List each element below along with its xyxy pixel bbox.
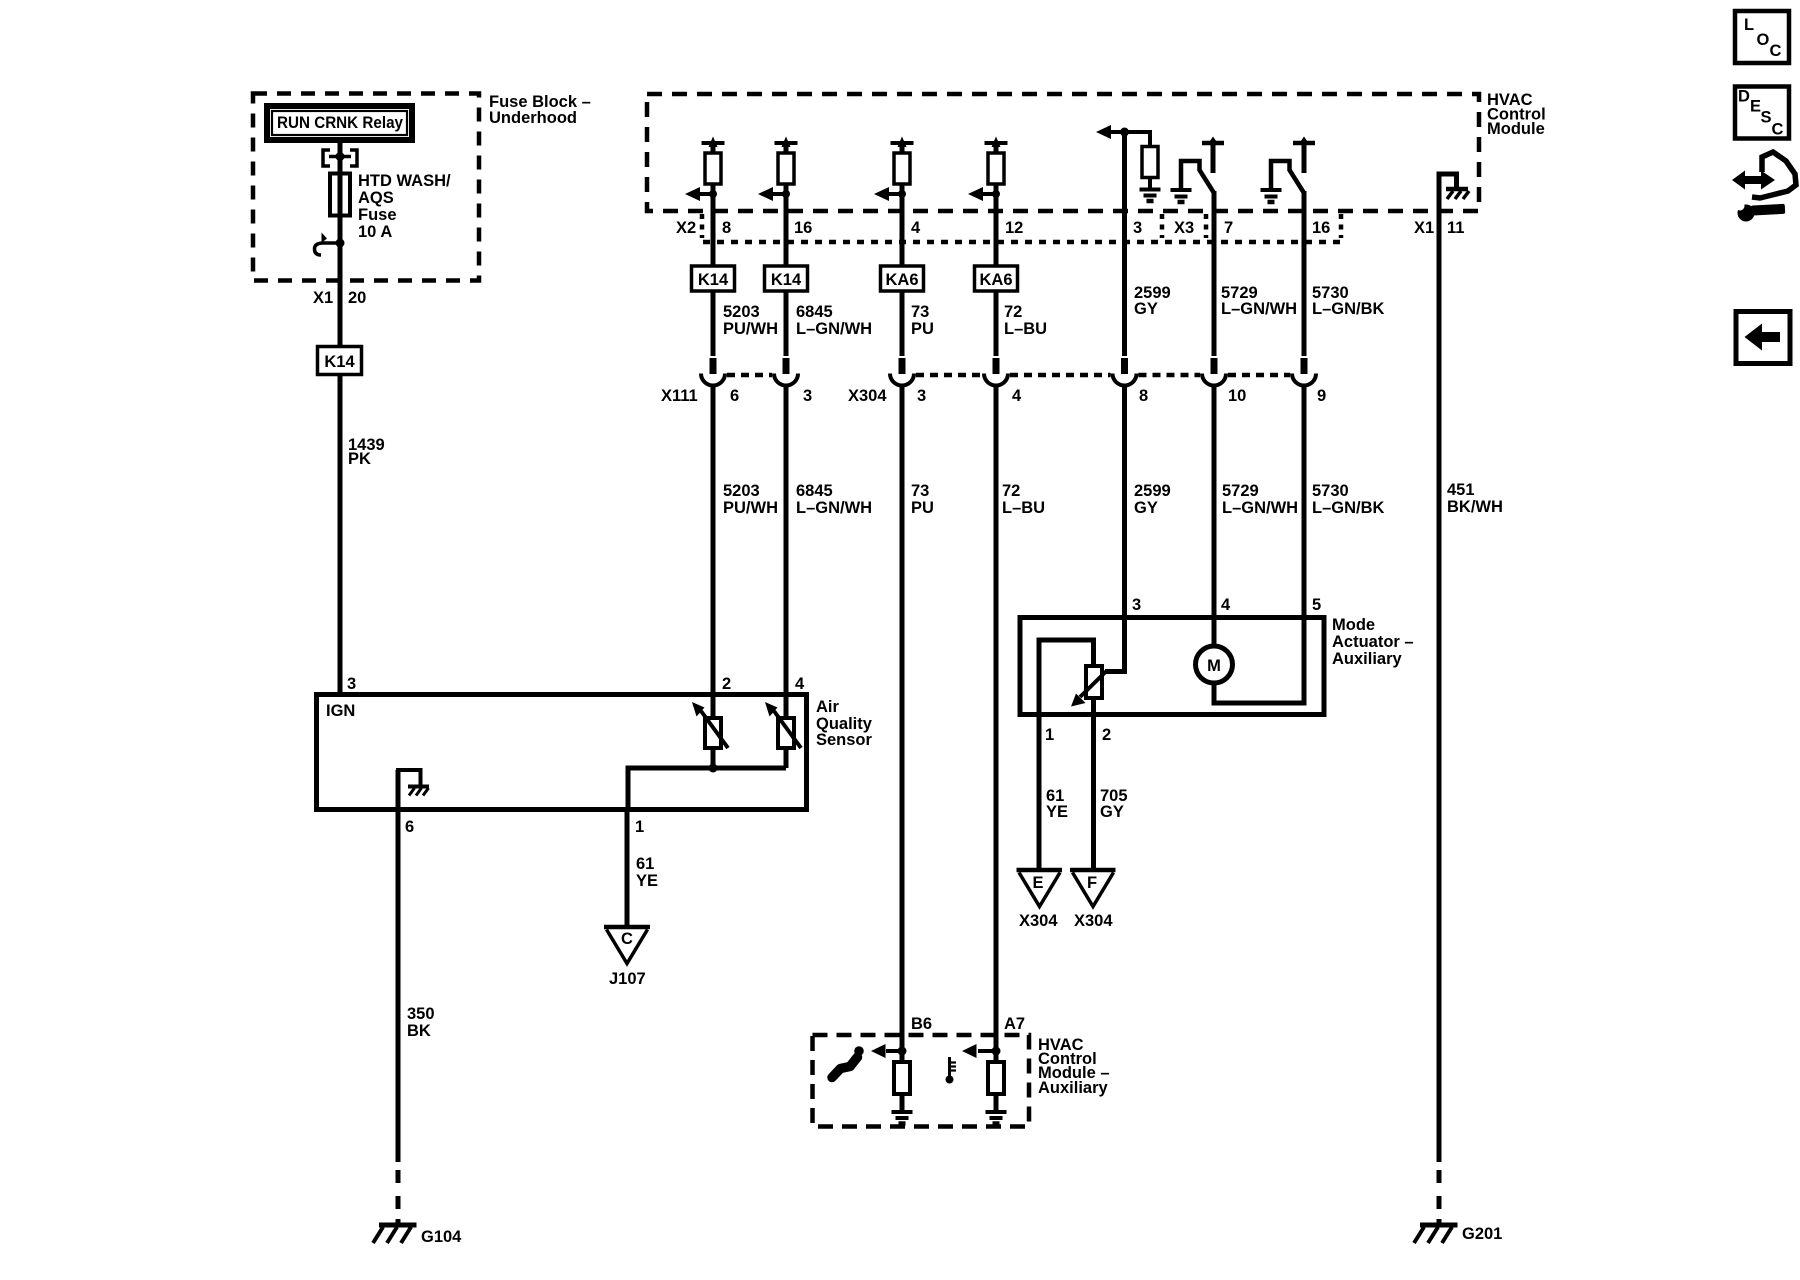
svg-text:16: 16 <box>1312 219 1330 237</box>
svg-text:KA6: KA6 <box>979 271 1012 289</box>
svg-text:2: 2 <box>722 675 731 693</box>
LOC icon <box>1735 11 1789 63</box>
svg-text:20: 20 <box>348 289 366 307</box>
wire X2-8 to X111-6, circuit 5203 PU/WH <box>711 211 716 356</box>
svg-text:Underhood: Underhood <box>489 109 577 127</box>
in-line connector X304 pin 3 <box>890 358 914 386</box>
svg-text:X304: X304 <box>1074 912 1113 930</box>
svg-text:YE: YE <box>1046 803 1068 821</box>
fuse HTD WASH/AQS 10 A <box>330 174 350 216</box>
seat icon <box>832 1046 864 1077</box>
svg-text:5: 5 <box>1312 596 1321 614</box>
wire X111-6 to AQS pin 2 <box>711 386 716 694</box>
variable resistor at pin 2 <box>692 702 728 748</box>
module output driver: resistor with up arrow, pin X2-4 <box>874 137 914 212</box>
svg-text:11: 11 <box>1447 219 1464 237</box>
svg-text:4: 4 <box>795 675 805 693</box>
svg-text:6: 6 <box>405 818 414 836</box>
svg-text:10 A: 10 A <box>358 223 392 241</box>
svg-text:3: 3 <box>1132 596 1141 614</box>
svg-text:K14: K14 <box>324 353 355 371</box>
wire mode actuator pin 1 to splice E, circuit 61 YE <box>1037 715 1042 870</box>
module low-side switch for pin X3-7 <box>1171 137 1225 212</box>
svg-text:350: 350 <box>407 1005 435 1023</box>
back-arrow icon <box>1736 312 1790 364</box>
ground G201 <box>1414 1225 1458 1243</box>
svg-text:61: 61 <box>636 855 654 873</box>
wire AQS pin 6 to G104, circuit 350 BK <box>396 810 401 1162</box>
svg-text:AQS: AQS <box>358 189 394 207</box>
wire X2-3 to X304-8, circuit 2599 GY <box>1122 211 1127 356</box>
svg-text:2: 2 <box>1102 726 1111 744</box>
wire X3-7 to X304-10, circuit 5729 L-GN/WH <box>1212 211 1217 356</box>
svg-text:HTD WASH/: HTD WASH/ <box>358 172 451 190</box>
aux module B6 input: arrow, resistor to ground <box>871 1044 913 1124</box>
DESC icon <box>1735 87 1789 139</box>
splice triangle F (X304) <box>1070 870 1116 907</box>
wire X304-3 to HVAC aux B6 <box>900 386 905 1062</box>
svg-text:PU/WH: PU/WH <box>723 320 778 338</box>
svg-text:L–GN/WH: L–GN/WH <box>1221 300 1297 318</box>
module low-side switch for pin X3-16 <box>1261 137 1316 212</box>
module output driver: resistor with up arrow, pin X2-16 <box>758 137 798 212</box>
svg-text:1: 1 <box>1045 726 1054 744</box>
svg-text:L–BU: L–BU <box>1004 320 1047 338</box>
wire X304-10 to mode actuator pin 4 <box>1212 386 1217 617</box>
AQS internal link wire <box>628 768 786 810</box>
svg-text:GY: GY <box>1134 499 1158 517</box>
svg-text:K14: K14 <box>771 271 802 289</box>
svg-text:73: 73 <box>911 482 929 500</box>
motor M <box>1196 617 1305 703</box>
wire to G201 dashed tail <box>1437 1170 1442 1224</box>
aux module A7 input: arrow, resistor to ground <box>962 1044 1007 1124</box>
jump-to icon (arrows and wrench) <box>1732 152 1796 222</box>
thermometer icon <box>946 1057 957 1084</box>
svg-text:Auxiliary: Auxiliary <box>1332 650 1403 668</box>
svg-text:4: 4 <box>1221 596 1231 614</box>
in-line connector X304 pin 8 <box>1113 358 1137 386</box>
svg-text:C: C <box>1770 42 1782 60</box>
AQS internal wire pin2 branch <box>711 694 716 768</box>
svg-text:2599: 2599 <box>1134 482 1171 500</box>
HVAC Control Module - Auxiliary dashed box <box>813 1035 1030 1127</box>
wire X1-11 to G201, circuit 451 BK/WH <box>1437 211 1442 1162</box>
svg-text:L–GN/BK: L–GN/BK <box>1312 300 1385 318</box>
svg-text:YE: YE <box>636 872 658 890</box>
module output driver: resistor with up arrow, pin X2-12 <box>968 137 1008 212</box>
svg-text:1: 1 <box>635 818 644 836</box>
svg-text:X1: X1 <box>313 289 333 307</box>
svg-text:Actuator –: Actuator – <box>1332 633 1414 651</box>
variable resistor at pin 4 <box>765 702 801 748</box>
wire AQS pin 1 to splice C, circuit 61 YE <box>625 810 630 927</box>
svg-text:X3: X3 <box>1174 219 1194 237</box>
svg-text:C: C <box>1772 121 1784 139</box>
X304 connector dashed links <box>916 373 982 378</box>
svg-text:C: C <box>621 930 633 948</box>
svg-text:O: O <box>1757 31 1770 49</box>
svg-text:72: 72 <box>1004 303 1022 321</box>
svg-text:3: 3 <box>803 387 812 405</box>
junction node on fuse wire <box>336 152 345 161</box>
svg-text:RUN CRNK Relay: RUN CRNK Relay <box>277 114 404 132</box>
svg-text:BK/WH: BK/WH <box>1447 498 1503 516</box>
Fuse Block - Underhood dashed box <box>253 94 479 281</box>
svg-text:6845: 6845 <box>796 482 833 500</box>
svg-text:L–GN/WH: L–GN/WH <box>796 499 872 517</box>
svg-text:5730: 5730 <box>1312 482 1349 500</box>
KA6 box on wire <box>975 266 1018 291</box>
svg-text:3: 3 <box>917 387 926 405</box>
svg-text:6: 6 <box>730 387 739 405</box>
svg-text:PU: PU <box>911 499 934 517</box>
svg-text:Sensor: Sensor <box>816 731 873 749</box>
in-line connector X111 pin 6 <box>701 358 725 386</box>
svg-text:L–GN/WH: L–GN/WH <box>1222 499 1298 517</box>
svg-text:72: 72 <box>1002 482 1020 500</box>
svg-text:Fuse: Fuse <box>358 206 397 224</box>
svg-text:PK: PK <box>348 450 371 468</box>
svg-text:S: S <box>1761 109 1772 127</box>
K14 box on fuse wire <box>318 347 362 375</box>
connector strip dotted bottom line <box>703 240 1341 245</box>
svg-text:PU/WH: PU/WH <box>723 499 778 517</box>
splice triangle E (X304) <box>1017 870 1063 907</box>
svg-text:K14: K14 <box>698 271 729 289</box>
svg-text:X1: X1 <box>1414 219 1434 237</box>
svg-text:X111: X111 <box>661 387 698 405</box>
svg-text:X304: X304 <box>1019 912 1058 930</box>
svg-text:451: 451 <box>1447 481 1475 499</box>
svg-text:G104: G104 <box>421 1228 462 1246</box>
HVAC Control Module dashed box <box>647 94 1479 211</box>
svg-text:7: 7 <box>1224 219 1233 237</box>
svg-text:4: 4 <box>911 219 921 237</box>
svg-text:X2: X2 <box>676 219 696 237</box>
AQS internal wire pin4 branch <box>784 694 789 768</box>
svg-text:73: 73 <box>911 303 929 321</box>
wire X304-8 to mode actuator pin 3 <box>1122 386 1127 617</box>
svg-text:9: 9 <box>1317 387 1326 405</box>
svg-text:16: 16 <box>794 219 812 237</box>
svg-text:L–GN/BK: L–GN/BK <box>1312 499 1385 517</box>
connector strip separators <box>700 214 705 238</box>
relay RUN CRNK Relay <box>267 106 412 140</box>
svg-text:10: 10 <box>1228 387 1246 405</box>
splice triangle C (J107) <box>604 927 650 964</box>
svg-text:8: 8 <box>1139 387 1148 405</box>
svg-text:Mode: Mode <box>1332 616 1375 634</box>
svg-text:BK: BK <box>407 1022 431 1040</box>
wire mode actuator pin 2 to splice F, circuit 705 GY <box>1091 715 1096 870</box>
svg-text:3: 3 <box>1133 219 1142 237</box>
svg-text:F: F <box>1087 874 1097 892</box>
svg-text:GY: GY <box>1134 300 1158 318</box>
svg-text:3: 3 <box>347 675 356 693</box>
Air Quality Sensor box <box>317 695 807 810</box>
module output driver: resistor with up arrow, pin X2-8 <box>685 137 725 212</box>
junction node at hook <box>336 239 345 248</box>
KA6 box on wire <box>881 266 924 291</box>
svg-text:6845: 6845 <box>796 303 833 321</box>
svg-text:M: M <box>1207 657 1221 675</box>
wire X304-4 to HVAC aux A7 <box>994 386 999 1062</box>
svg-text:L: L <box>1744 16 1754 34</box>
svg-text:IGN: IGN <box>326 702 355 720</box>
wire X304-9 to mode actuator pin 5 <box>1302 386 1307 617</box>
svg-text:Auxiliary: Auxiliary <box>1038 1079 1109 1097</box>
svg-text:E: E <box>1750 98 1761 116</box>
svg-text:4: 4 <box>1012 387 1022 405</box>
module input pin X2-3: arrow node with pull-up resistor to ground <box>1096 125 1161 211</box>
module internal chassis ground at pin X1-11 <box>1439 174 1469 211</box>
in-line connector X304 pin 4 <box>984 358 1008 386</box>
svg-text:KA6: KA6 <box>885 271 918 289</box>
svg-text:D: D <box>1738 88 1750 106</box>
svg-text:8: 8 <box>722 219 731 237</box>
svg-text:Air: Air <box>816 698 840 716</box>
wire X111-3 to AQS pin 4 <box>784 386 789 694</box>
svg-text:J107: J107 <box>609 970 646 988</box>
wire X3-16 to X304-9, circuit 5730 L-GN/BK <box>1302 211 1307 356</box>
svg-text:L–BU: L–BU <box>1002 499 1045 517</box>
wire X2-12 to X304-4, circuit 72 L-BU <box>994 211 999 356</box>
wire K14 to IGN, circuit 1439 PK <box>338 375 343 694</box>
svg-text:E: E <box>1032 874 1043 892</box>
X111 connector dashed link <box>727 373 772 378</box>
svg-text:X304: X304 <box>848 387 887 405</box>
K14 box on wire <box>765 266 808 291</box>
svg-text:5203: 5203 <box>723 482 760 500</box>
svg-text:B6: B6 <box>911 1015 932 1033</box>
ground G104 <box>373 1225 417 1243</box>
mode actuator position feedback potentiometer <box>1039 617 1125 715</box>
hook contact symbol on wire <box>315 233 341 256</box>
svg-text:G201: G201 <box>1462 1225 1502 1243</box>
connector bracket pair on fuse wire <box>323 150 357 166</box>
in-line connector X304 pin 9 <box>1292 358 1316 386</box>
in-line connector X111 pin 3 <box>774 358 798 386</box>
svg-text:L–GN/WH: L–GN/WH <box>796 320 872 338</box>
Mode Actuator - Auxiliary box <box>1020 618 1324 715</box>
svg-text:PU: PU <box>911 320 934 338</box>
wire X2-4 to X304-3, circuit 73 PU <box>900 211 905 356</box>
svg-text:GY: GY <box>1100 803 1124 821</box>
svg-text:12: 12 <box>1005 219 1023 237</box>
K14 box on wire <box>692 266 735 291</box>
svg-text:A7: A7 <box>1004 1015 1025 1033</box>
svg-text:5729: 5729 <box>1222 482 1259 500</box>
AQS internal chassis ground at pin 6 <box>396 770 429 810</box>
X2 / X3 / X1 connector strip labels <box>676 219 1464 237</box>
wire from relay to K14 box <box>338 140 343 346</box>
svg-text:Module: Module <box>1487 120 1545 138</box>
svg-text:5203: 5203 <box>723 303 760 321</box>
junction node <box>709 764 718 773</box>
in-line connector X304 pin 10 <box>1202 358 1226 386</box>
wire X2-16 to X111-3, circuit 6845 L-GN/WH <box>784 211 789 356</box>
